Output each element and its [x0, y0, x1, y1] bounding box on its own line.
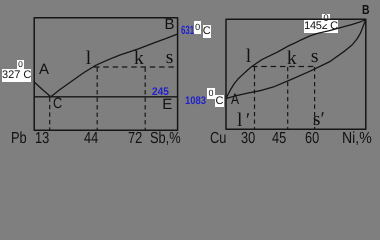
- node A left: [39, 62, 49, 77]
- node E: [162, 97, 172, 112]
- dashed vertical 60: [314, 67, 316, 129]
- dashed vertical 30: [254, 67, 256, 129]
- value 245 blue: [152, 87, 169, 98]
- left chart frame (Pb-Sb): [34, 18, 177, 130]
- right solidus: [226, 20, 366, 99]
- dashed vertical 72: [144, 68, 146, 130]
- label 327 degree 0 box: [17, 60, 24, 69]
- tick 13: [35, 131, 49, 147]
- axis Pb: [11, 131, 27, 147]
- tick 72: [128, 131, 142, 147]
- node C eutectic: [53, 96, 62, 111]
- axis Ni,%: [342, 131, 372, 147]
- node B right: [362, 3, 370, 16]
- axis Cu: [210, 131, 226, 147]
- point s right: [311, 47, 319, 67]
- value 1083 blue: [185, 96, 206, 107]
- right tie line dashed: [252, 66, 317, 68]
- label 1083 degree 0 box: [207, 88, 215, 99]
- tick 60: [305, 131, 319, 147]
- node A right: [231, 92, 239, 107]
- label 1452 C white box: [304, 20, 338, 33]
- point k right: [287, 49, 297, 69]
- dashed vertical 44: [96, 68, 98, 130]
- right chart frame (Cu-Ni): [226, 19, 366, 129]
- dashed vertical 13: [49, 97, 51, 129]
- label 1083 C box: [215, 95, 224, 107]
- label 631 C box: [203, 25, 211, 39]
- tick 44: [84, 131, 98, 147]
- tick 30: [241, 131, 255, 147]
- axis Sb,%: [150, 131, 181, 147]
- point l right: [246, 47, 251, 67]
- label 327 C white box: [2, 69, 31, 82]
- left tie line dashed: [94, 66, 177, 68]
- left liquidus C-B: [51, 34, 178, 97]
- point s left: [166, 48, 174, 68]
- point l' right: [237, 111, 250, 131]
- dashed vertical 45: [287, 67, 289, 129]
- eutectic line: [34, 96, 177, 98]
- label 1452 degree 0 box: [322, 14, 330, 24]
- right liquidus: [226, 20, 366, 99]
- value 631 blue: [181, 24, 194, 36]
- point s' right: [313, 110, 325, 130]
- left liquidus A-C: [34, 82, 51, 97]
- label 631 degree 0 box: [194, 21, 201, 34]
- point k left: [134, 49, 144, 69]
- point l left: [86, 49, 91, 69]
- node B left: [165, 17, 175, 32]
- tick 45: [272, 131, 286, 147]
